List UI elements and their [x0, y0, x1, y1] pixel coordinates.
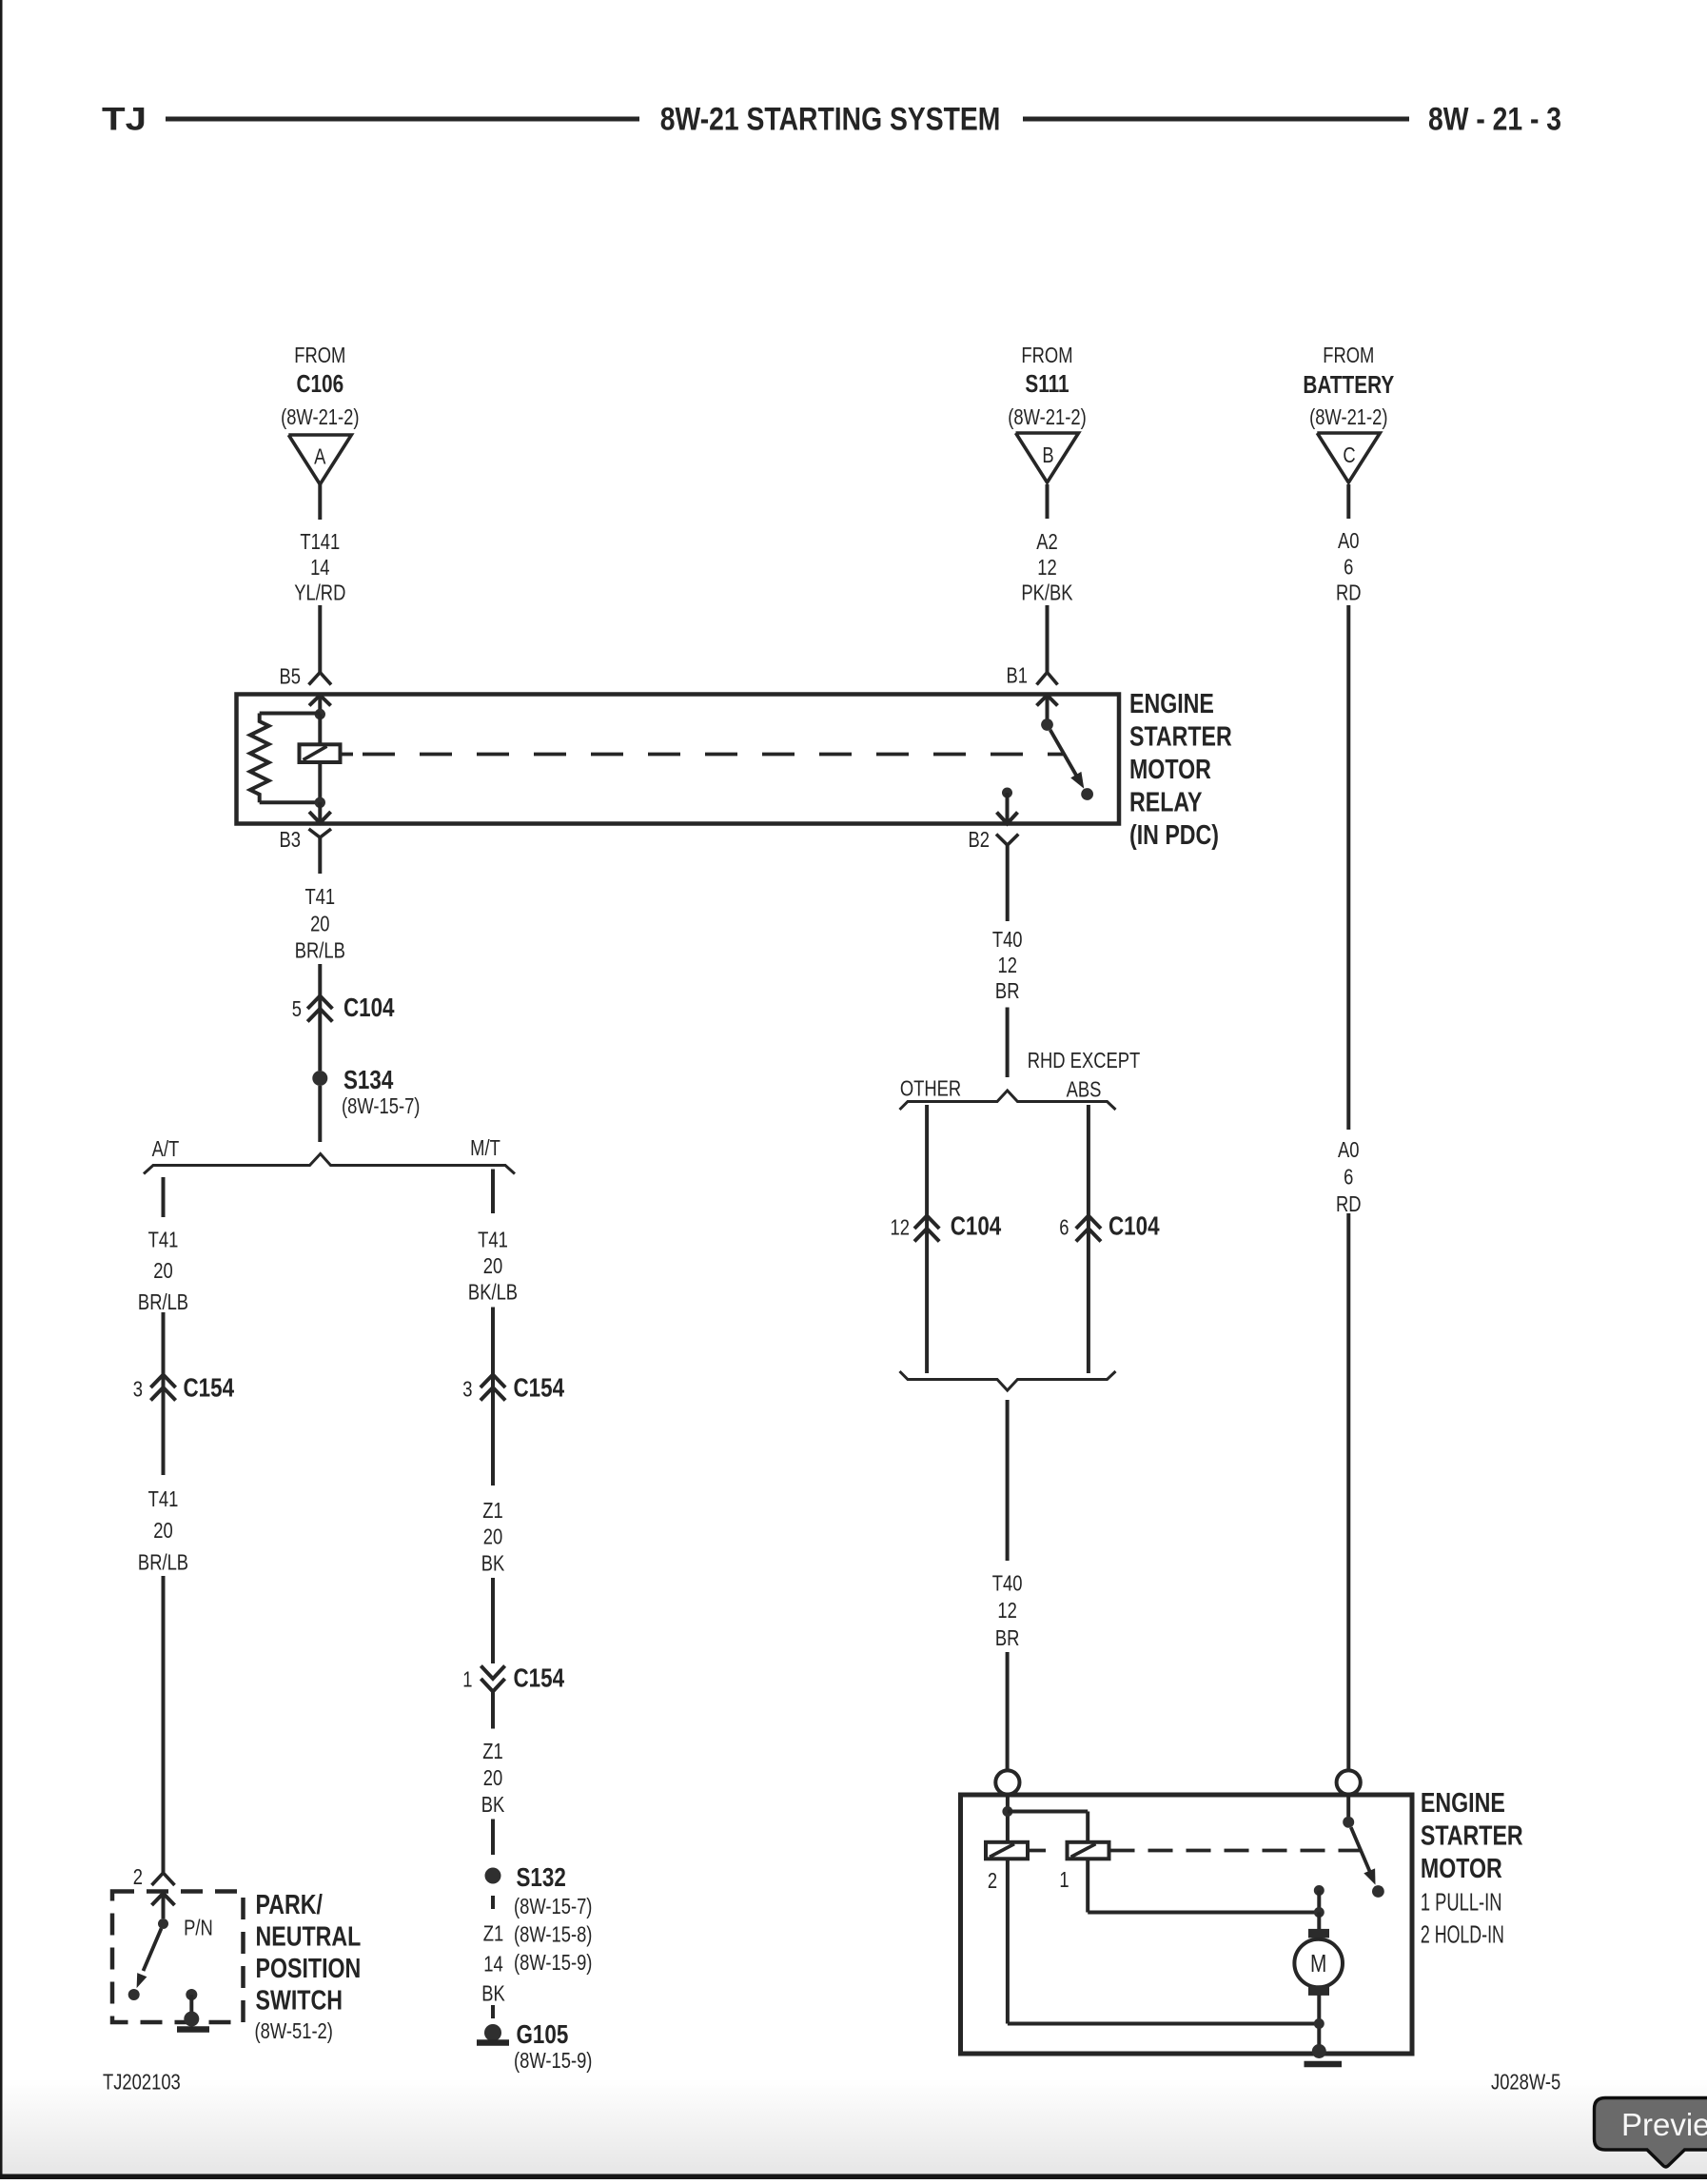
starter motor terminal circle right [1337, 1770, 1361, 1794]
svg-text:(8W-15-7): (8W-15-7) [342, 1094, 420, 1118]
svg-text:C104: C104 [1109, 1211, 1160, 1241]
svg-text:1: 1 [1059, 1868, 1069, 1892]
svg-text:(8W-15-7): (8W-15-7) [514, 1895, 592, 1918]
svg-text:C106: C106 [296, 370, 343, 398]
svg-text:TJ202103: TJ202103 [103, 2071, 181, 2095]
connector C104 cavity 5 lower chevron [307, 1009, 332, 1022]
relay output junction B2 [1002, 788, 1012, 798]
svg-text:B: B [1042, 443, 1053, 467]
svg-text:BK/LB: BK/LB [468, 1281, 518, 1305]
svg-text:Preview: Preview [1621, 2107, 1707, 2142]
starter switch open contact [1372, 1885, 1384, 1898]
preview tooltip bubble [1595, 2098, 1707, 2167]
A/T - M/T split brace [144, 1154, 515, 1174]
wire from resistor bottom [260, 800, 321, 804]
wire B below triangle [1046, 484, 1050, 519]
wire motor to ground node [1317, 1996, 1321, 2052]
svg-text:3: 3 [462, 1378, 472, 1402]
arrow out of relay at B3 [309, 812, 331, 823]
svg-text:5: 5 [292, 997, 302, 1021]
svg-text:A2: A2 [1036, 530, 1058, 554]
wire A/T T41 to C154 [162, 1312, 166, 1475]
svg-text:T41: T41 [148, 1229, 179, 1252]
svg-text:1 PULL-IN: 1 PULL-IN [1421, 1888, 1502, 1916]
svg-text:A: A [314, 445, 325, 469]
relay control dashed link stub [342, 753, 354, 757]
svg-text:NEUTRAL: NEUTRAL [255, 1920, 361, 1952]
relay switch blade [1050, 730, 1076, 776]
relay coil [300, 744, 341, 762]
svg-text:G105: G105 [516, 2020, 568, 2050]
connector C154 cavity 3 upper chevron A/T [150, 1375, 175, 1388]
connector C154 cavity 3 upper chevron M/T [481, 1375, 505, 1388]
svg-text:(8W-15-9): (8W-15-9) [514, 1951, 592, 1975]
motor brush top [1308, 1929, 1329, 1938]
svg-text:PK/BK: PK/BK [1021, 581, 1072, 605]
page left edge line [0, 0, 3, 2179]
svg-text:(8W-15-9): (8W-15-9) [514, 2049, 592, 2073]
starter ground dot on case [1312, 2044, 1326, 2058]
svg-text:20: 20 [153, 1259, 172, 1283]
svg-text:BK: BK [481, 1793, 505, 1817]
wire return run to motor bottom [1008, 2022, 1319, 2026]
svg-text:B1: B1 [1006, 664, 1028, 688]
wire pull-in coil to motor top [1088, 1911, 1319, 1915]
wire coil top lead [318, 715, 322, 745]
svg-text:RD: RD [1336, 1192, 1362, 1216]
svg-text:20: 20 [483, 1766, 502, 1790]
relay switch blade arrowhead [1070, 772, 1084, 789]
svg-text:YL/RD: YL/RD [294, 581, 345, 605]
wire Z1 20 BK to S132 [491, 1820, 495, 1856]
svg-text:C154: C154 [183, 1373, 234, 1403]
arrow into PNP switch [152, 1894, 175, 1906]
svg-text:T41: T41 [304, 885, 335, 909]
svg-text:BATTERY: BATTERY [1303, 371, 1394, 399]
svg-text:A/T: A/T [152, 1137, 180, 1161]
relay coil top junction [315, 709, 325, 719]
arrow into relay at B5 [309, 696, 331, 706]
hold-in coil diagonal [990, 1844, 1014, 1858]
header rule left [166, 117, 639, 122]
wire fixed contact to motor node [1317, 1891, 1321, 1913]
motor brush bottom [1308, 1986, 1329, 1996]
svg-text:S111: S111 [1025, 370, 1069, 398]
wire pull-in coil bottom lead [1086, 1859, 1089, 1912]
connector C104 cavity 6 lower chevron [1076, 1229, 1101, 1242]
motor return junction [1314, 2018, 1324, 2029]
svg-text:(8W-21-2): (8W-21-2) [281, 405, 359, 429]
svg-text:14: 14 [310, 556, 329, 580]
svg-text:2: 2 [988, 1869, 997, 1893]
svg-text:TJ: TJ [102, 102, 147, 138]
svg-text:C154: C154 [514, 1663, 565, 1693]
svg-text:FROM: FROM [1323, 344, 1374, 367]
PNP switch blade [144, 1929, 162, 1972]
svg-text:(8W-21-2): (8W-21-2) [1309, 405, 1387, 429]
wire Z1 20 BK to C154 cavity 1 [491, 1578, 495, 1663]
relay coil bottom junction [315, 797, 325, 808]
connector chevron pin 2 PNP switch [152, 1873, 175, 1885]
wire M/T T41 to C154 [491, 1308, 495, 1486]
connector C104 cavity 12 lower chevron [914, 1229, 939, 1242]
PNP ground splice dot [184, 2012, 199, 2027]
svg-text:20: 20 [483, 1525, 502, 1549]
svg-text:ABS: ABS [1067, 1078, 1102, 1102]
wire to motor brush top [1317, 1913, 1321, 1930]
engine starter motor box [961, 1795, 1413, 2054]
wire T41 20 BR/LB to C104 [318, 964, 322, 1071]
OTHER / RHD-except-ABS split brace [900, 1091, 1116, 1110]
wire inside PNP switch [162, 1894, 166, 1919]
wire pull-in coil top lead [1086, 1812, 1089, 1842]
wire T40 12 BR to starter motor [1006, 1652, 1010, 1770]
wire A/T to park/neutral switch [162, 1576, 166, 1873]
connector C154 cavity 3 lower chevron M/T [481, 1387, 505, 1401]
svg-text:STARTER: STARTER [1421, 1820, 1523, 1851]
svg-text:MOTOR: MOTOR [1129, 753, 1211, 784]
svg-text:BR/LB: BR/LB [138, 1290, 188, 1314]
engine starter motor relay box (in PDC) [237, 695, 1120, 824]
svg-text:RD: RD [1336, 581, 1362, 605]
svg-text:POSITION: POSITION [255, 1952, 361, 1983]
svg-text:M: M [1310, 1950, 1326, 1977]
wire RHD-except-ABS branch [1087, 1105, 1090, 1373]
wire A0 6 RD upper segment [1346, 605, 1350, 1130]
svg-text:6: 6 [1344, 556, 1353, 580]
svg-text:1: 1 [462, 1668, 472, 1692]
svg-text:FROM: FROM [1021, 344, 1072, 367]
svg-text:(8W-51-2): (8W-51-2) [255, 2019, 333, 2043]
svg-text:2 HOLD-IN: 2 HOLD-IN [1421, 1920, 1504, 1948]
svg-text:OTHER: OTHER [900, 1077, 961, 1101]
wire coil bottom lead [318, 762, 322, 802]
svg-text:Z1: Z1 [482, 1740, 502, 1763]
svg-text:M/T: M/T [470, 1136, 500, 1160]
starter switch blade [1351, 1827, 1370, 1872]
wire below C154 cavity 1 [491, 1692, 495, 1729]
svg-text:J028W-5: J028W-5 [1491, 2071, 1560, 2095]
PNP switch open contact [128, 1989, 140, 2000]
svg-text:6: 6 [1344, 1166, 1353, 1190]
wire PNP contact to ground [189, 1995, 193, 2019]
svg-text:BK: BK [481, 1982, 505, 2006]
svg-text:3: 3 [133, 1378, 143, 1402]
svg-text:(8W-21-2): (8W-21-2) [1008, 405, 1086, 429]
connector chevron B5 [309, 673, 332, 685]
relay switch open contact [1081, 788, 1093, 800]
wire hold-in coil to motor return [1006, 1859, 1010, 2023]
svg-text:20: 20 [153, 1519, 172, 1543]
hold-in coil 2 [986, 1842, 1028, 1859]
ground G105 bar [477, 2039, 509, 2046]
svg-text:Z1: Z1 [482, 1499, 502, 1523]
wire A/T branch top [162, 1177, 166, 1217]
dashed wire below S132 upper dash [491, 1896, 495, 1909]
svg-text:12: 12 [997, 954, 1016, 977]
svg-text:S132: S132 [516, 1863, 565, 1893]
starter dashed link stub [1030, 1849, 1047, 1853]
PNP switch pivot [158, 1918, 168, 1929]
svg-text:B3: B3 [279, 828, 301, 852]
svg-text:12: 12 [997, 1599, 1016, 1623]
wire below merge brace [1006, 1400, 1010, 1561]
wire terminal to hold-in coil [1006, 1795, 1010, 1842]
dashed wire below S132 lower dash [491, 2005, 495, 2018]
header rule right [1023, 117, 1409, 122]
splice S132 [485, 1868, 501, 1884]
pull-in coil diagonal [1071, 1844, 1096, 1858]
arrow into relay at B1 [1037, 696, 1058, 706]
starter chassis ground bar [1305, 2061, 1343, 2068]
wire OTHER branch [925, 1105, 929, 1373]
connector C154 cavity 1 lower chevron [481, 1679, 504, 1692]
resistor (relay suppression) [250, 714, 269, 803]
relay control dashed link [363, 753, 1063, 757]
svg-text:20: 20 [310, 913, 329, 936]
wire C below triangle [1346, 484, 1350, 519]
merge brace below C104 branches [900, 1371, 1116, 1390]
wire A0 6 RD lower segment [1346, 1213, 1350, 1770]
svg-text:ENGINE: ENGINE [1129, 687, 1214, 718]
park/neutral position switch dashed box [112, 1892, 244, 2023]
wire battery terminal inside starter [1346, 1795, 1350, 1817]
starter motor M [1294, 1939, 1343, 1988]
wire B5 inside relay [318, 696, 322, 715]
wire A below triangle [318, 484, 322, 520]
svg-text:2: 2 [133, 1865, 143, 1889]
svg-text:P/N: P/N [184, 1917, 213, 1940]
starter switch blade arrowhead [1364, 1868, 1375, 1884]
svg-text:8W - 21 - 3: 8W - 21 - 3 [1428, 101, 1561, 138]
wire M/T branch top [491, 1170, 495, 1214]
starter motor terminal circle left [995, 1770, 1019, 1794]
svg-text:6: 6 [1059, 1216, 1069, 1240]
connector C104 cavity 5 upper chevron [307, 996, 332, 1010]
connector triangle A (from C106) [288, 435, 351, 484]
svg-text:B5: B5 [279, 665, 301, 689]
connector triangle C (from battery) [1317, 433, 1380, 482]
wire junction to pull-in lead [1008, 1810, 1088, 1814]
connector chevron B2 [996, 835, 1018, 846]
wire to relay pin B3 [318, 802, 322, 822]
ground G105 dot [484, 2024, 501, 2041]
svg-text:(8W-15-8): (8W-15-8) [514, 1923, 592, 1947]
svg-text:STARTER: STARTER [1129, 720, 1232, 752]
svg-text:BR: BR [995, 979, 1020, 1003]
wire B1 inside relay [1046, 696, 1050, 719]
PNP switch blade arrowhead [137, 1973, 147, 1988]
svg-text:RHD EXCEPT: RHD EXCEPT [1028, 1049, 1141, 1072]
connector C104 cavity 6 upper chevron [1076, 1216, 1101, 1230]
svg-text:A0: A0 [1338, 1138, 1360, 1162]
svg-text:BK: BK [481, 1552, 505, 1576]
svg-text:12: 12 [891, 1216, 910, 1240]
connector C154 cavity 1 upper chevron [481, 1666, 504, 1680]
svg-text:C104: C104 [951, 1211, 1002, 1241]
relay coil diagonal [304, 746, 327, 759]
wire below B3 [318, 837, 322, 874]
connector chevron B1 [1037, 673, 1058, 685]
svg-text:T40: T40 [992, 1572, 1023, 1596]
wire B to relay pin B1 [1046, 605, 1050, 673]
bottom window edge bar [0, 2174, 1707, 2180]
starter dashed link [1110, 1849, 1361, 1853]
svg-text:(IN PDC): (IN PDC) [1129, 818, 1219, 850]
svg-text:B2: B2 [968, 828, 990, 852]
svg-text:14: 14 [483, 1953, 502, 1977]
connector chevron B3 [309, 829, 332, 837]
connector C104 cavity 12 upper chevron [914, 1216, 939, 1230]
wire T40 12 BR to split [1006, 1008, 1010, 1078]
svg-text:C154: C154 [514, 1373, 565, 1403]
svg-text:T41: T41 [148, 1487, 179, 1511]
PNP switch ground contact [186, 1989, 197, 2000]
arrow out of relay at B2 [997, 813, 1018, 824]
svg-text:RELAY: RELAY [1129, 786, 1203, 817]
pull-in coil 1 [1068, 1842, 1109, 1859]
splice S134 [312, 1071, 327, 1086]
svg-text:C104: C104 [343, 994, 395, 1023]
svg-text:A0: A0 [1338, 529, 1360, 553]
connector C154 cavity 3 lower chevron A/T [150, 1387, 175, 1401]
svg-text:20: 20 [483, 1254, 502, 1278]
PNP chassis ground bar [177, 2026, 209, 2033]
wire to relay resistor top [260, 712, 321, 716]
svg-text:BR/LB: BR/LB [295, 939, 345, 963]
svg-text:FROM: FROM [294, 344, 345, 367]
wire to relay pin B2 [1006, 793, 1010, 823]
svg-text:S134: S134 [343, 1066, 393, 1095]
motor top junction [1314, 1907, 1324, 1918]
svg-text:SWITCH: SWITCH [255, 1984, 342, 2016]
svg-text:C: C [1343, 443, 1355, 467]
svg-text:MOTOR: MOTOR [1421, 1852, 1502, 1883]
wire below S134 [318, 1086, 322, 1142]
svg-text:T40: T40 [992, 928, 1023, 952]
svg-text:PARK/: PARK/ [255, 1888, 323, 1919]
starter switch pivot [1343, 1817, 1354, 1828]
svg-text:Z1: Z1 [483, 1922, 503, 1946]
wire A to relay pin B5 [318, 605, 322, 673]
connector triangle B (from S111) [1016, 433, 1079, 482]
svg-text:BR: BR [995, 1626, 1020, 1650]
relay switch pivot [1041, 718, 1053, 731]
wire below B2 [1006, 845, 1010, 921]
starter junction hold-in [1002, 1806, 1012, 1817]
svg-text:8W-21 STARTING SYSTEM: 8W-21 STARTING SYSTEM [660, 101, 1001, 138]
starter switch fixed contact [1314, 1885, 1324, 1896]
svg-text:BR/LB: BR/LB [138, 1551, 188, 1575]
svg-text:12: 12 [1037, 556, 1056, 580]
svg-text:T141: T141 [300, 530, 340, 554]
svg-text:T41: T41 [478, 1229, 508, 1252]
svg-text:ENGINE: ENGINE [1421, 1786, 1505, 1818]
